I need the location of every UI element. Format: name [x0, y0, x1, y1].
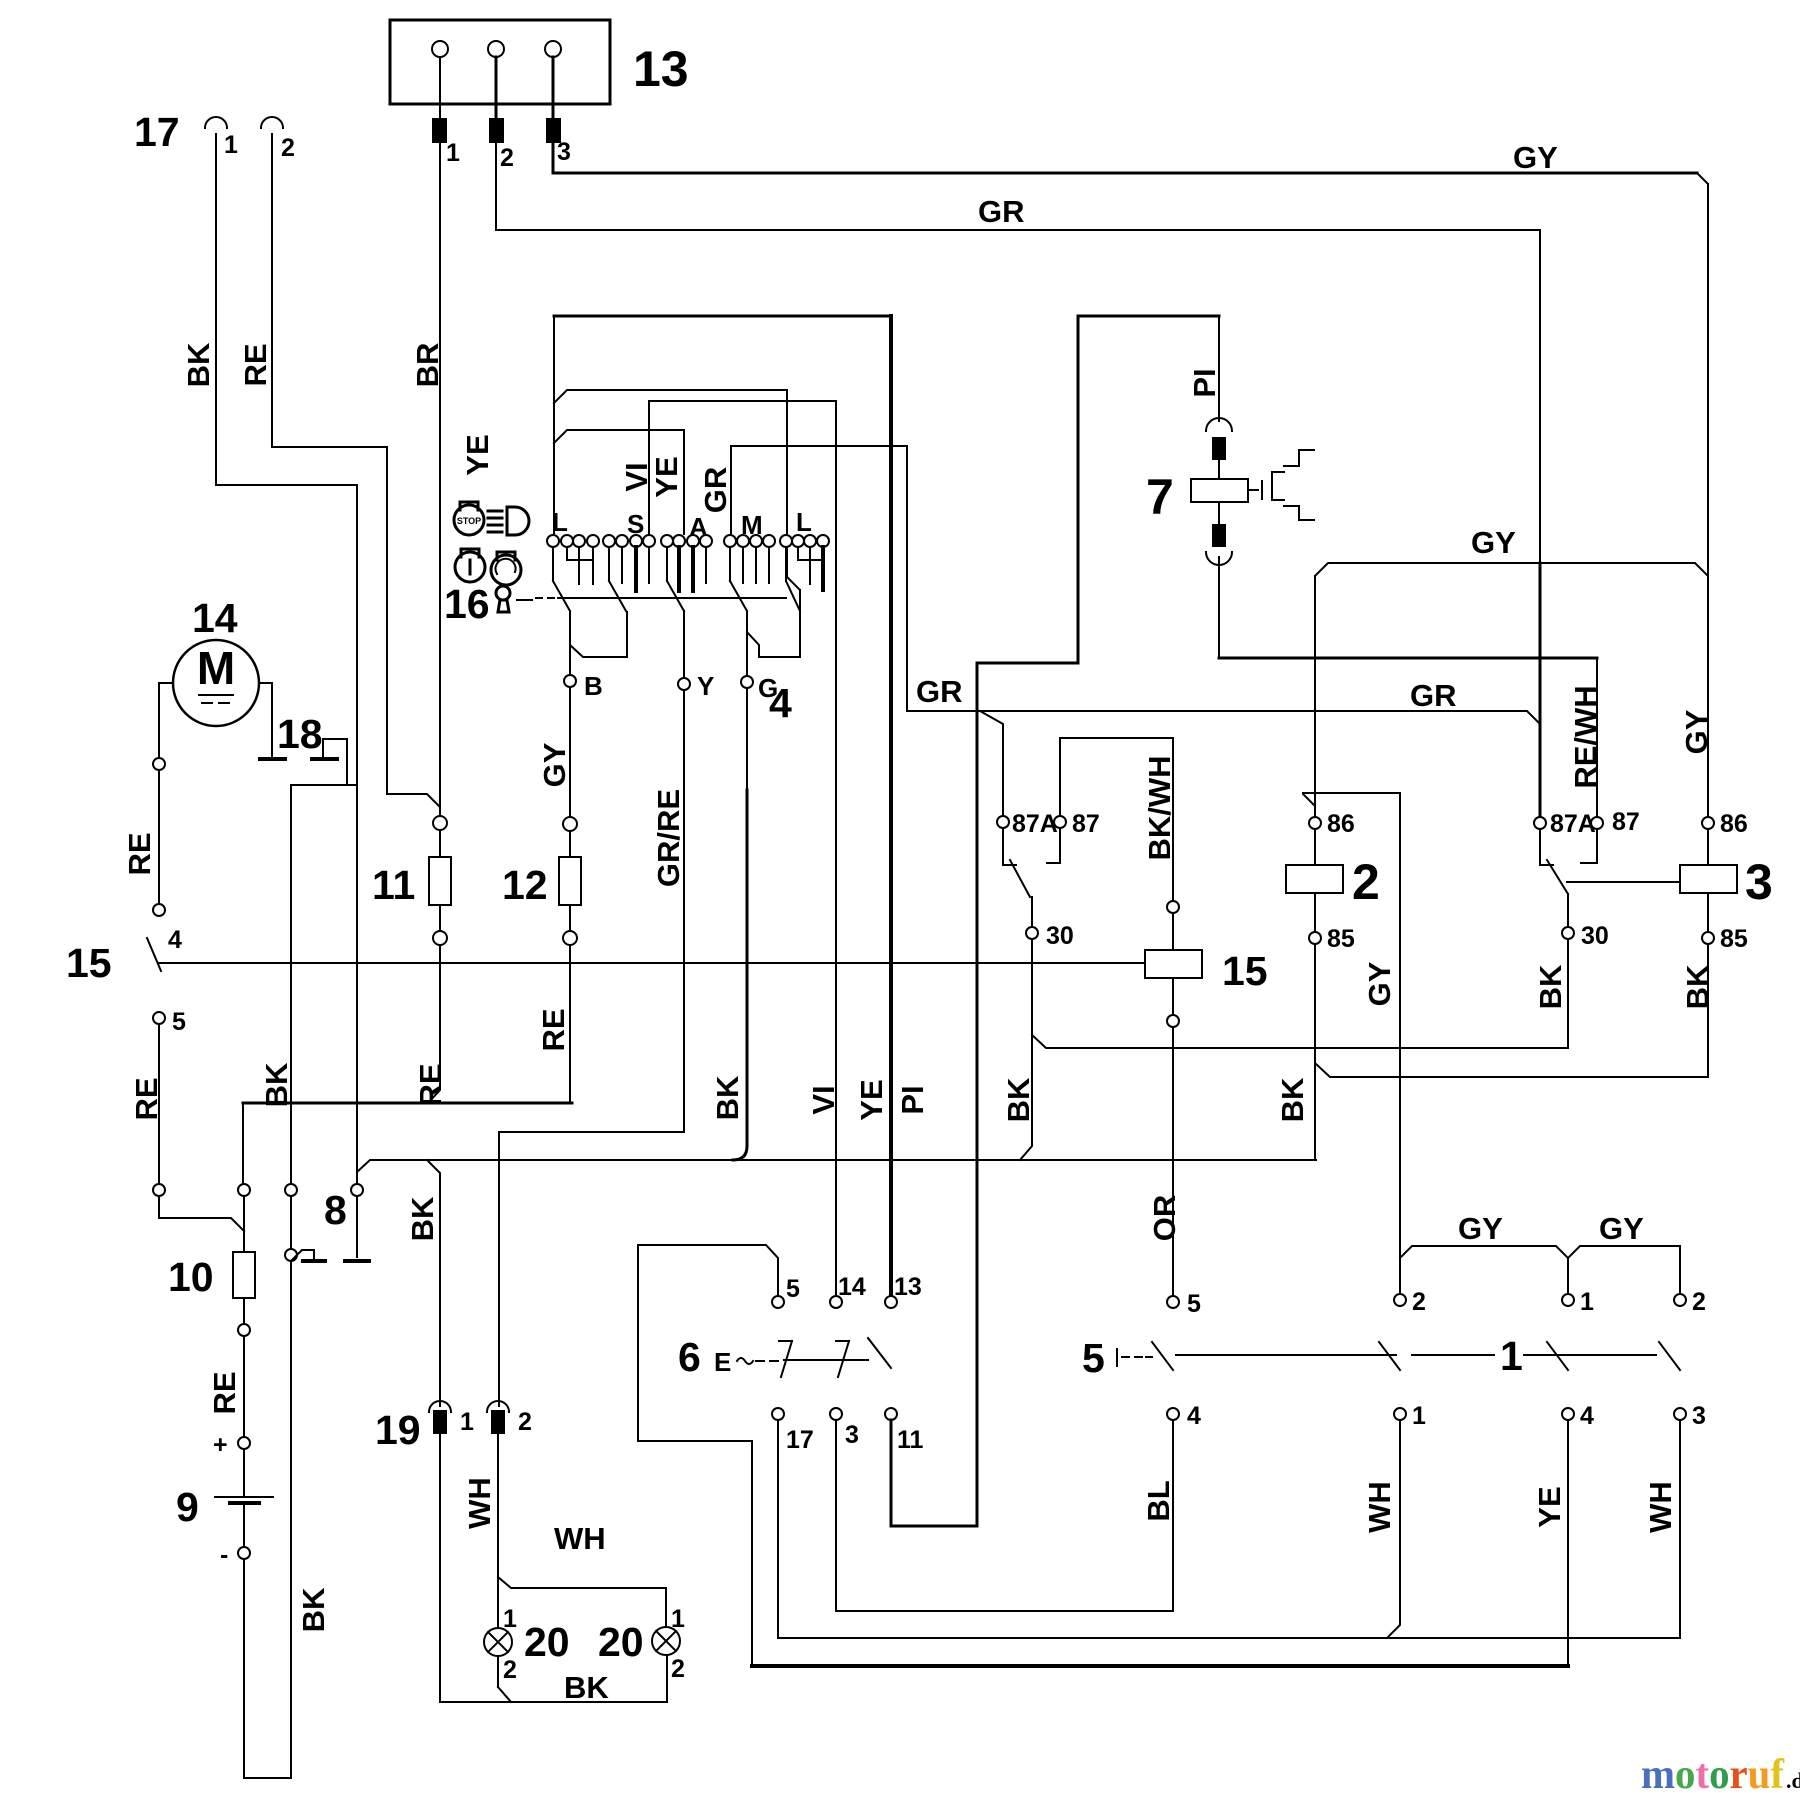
label GY switch1 b: [1599, 1211, 1644, 1246]
wire BK tap to connector 19-1: [427, 1160, 440, 1406]
svg-text:85: 85: [1327, 925, 1355, 953]
svg-text:-: -: [220, 1541, 228, 1569]
svg-text:WH: WH: [462, 1477, 497, 1529]
wire VI switch6-14: [835, 401, 837, 1296]
svg-text:13: 13: [633, 41, 689, 97]
diode 7 connector symbol: [1248, 450, 1314, 520]
label BR: [410, 343, 445, 388]
ignition switch blade 2: [609, 581, 626, 611]
svg-text:14: 14: [192, 595, 238, 641]
relay 2 coil: [1286, 829, 1380, 931]
svg-text:motoruf: motoruf: [1641, 1752, 1785, 1798]
relay 15 terminal 30: [1026, 922, 1074, 950]
wire motor left lead: [159, 683, 173, 757]
svg-text:RE: RE: [207, 1371, 242, 1414]
svg-text:PI: PI: [1187, 368, 1222, 397]
svg-text:3: 3: [557, 138, 571, 166]
svg-text:BK: BK: [1680, 964, 1715, 1009]
label RE lower left: [129, 1077, 164, 1120]
label GY relay3-86: [1679, 709, 1714, 754]
svg-text:RE/WH: RE/WH: [1568, 685, 1603, 788]
label OR: [1147, 1195, 1182, 1242]
svg-text:OR: OR: [1147, 1195, 1182, 1242]
wire GY relay2-86 to switch 1: [1303, 793, 1400, 1293]
label PI top: [1187, 368, 1222, 397]
wire BK bus y1160: [357, 1160, 1316, 1172]
label BK lamp wire: [564, 1670, 609, 1705]
label YE feeder: [649, 456, 684, 497]
label 18: [277, 711, 323, 757]
wire battery BK top link: [291, 785, 357, 1184]
svg-text:6: 6: [678, 1334, 701, 1380]
label RE wire 17-2: [238, 343, 273, 386]
svg-text:14: 14: [838, 1273, 866, 1301]
relay 3 terminal 85: [1702, 925, 1748, 953]
svg-text:GR: GR: [916, 674, 963, 709]
label 4 ignition node G: [769, 680, 792, 726]
label WH lamp jumper: [554, 1521, 606, 1556]
label WH pole A: [1362, 1481, 1397, 1533]
svg-text:13: 13: [894, 1273, 922, 1301]
svg-text:2: 2: [500, 144, 514, 172]
relay 2 terminal 85: [1309, 925, 1355, 1160]
switch 6 terminal 14: [830, 1273, 866, 1308]
svg-text:87A: 87A: [1012, 810, 1058, 838]
svg-text:YE: YE: [649, 456, 684, 497]
ignition switch terminal row group S: [603, 509, 655, 591]
svg-text:7: 7: [1146, 469, 1174, 525]
svg-text:Y: Y: [697, 671, 714, 701]
wire GY from 13-3 to relay 3 terminal 86: [553, 143, 1708, 816]
wire RE jog to fuse 10: [159, 1196, 244, 1231]
svg-text:YE: YE: [1532, 1486, 1567, 1527]
svg-text:RE: RE: [413, 1063, 448, 1106]
switch 5 terminal 4: [1167, 1402, 1201, 1430]
lamp 20 a: [484, 1605, 570, 1684]
label WH pole C: [1643, 1481, 1678, 1533]
junction circle battery BK: [285, 1249, 297, 1261]
label BK 19-1: [405, 1196, 440, 1241]
label WH 19-2: [462, 1477, 497, 1529]
switch 5 terminal 5: [1167, 1290, 1201, 1318]
svg-text:1: 1: [1412, 1402, 1426, 1430]
svg-text:3: 3: [1692, 1402, 1706, 1430]
svg-text:BL: BL: [1141, 1480, 1176, 1521]
svg-text:2: 2: [1412, 1288, 1426, 1316]
svg-text:GY: GY: [1471, 525, 1516, 560]
switch 6 blade 1: [779, 1341, 792, 1377]
ignition switch terminal row group M: [724, 510, 775, 583]
fuse 12: [502, 817, 581, 945]
wire GY jumper 1: [1400, 1246, 1568, 1294]
ignition switch terminal row group L2: [780, 507, 829, 590]
svg-text:3: 3: [845, 1421, 859, 1449]
label BL: [1141, 1480, 1176, 1521]
svg-text:RE: RE: [536, 1008, 571, 1051]
svg-text:20: 20: [598, 1619, 644, 1665]
relay 3 contact 87 hook: [1581, 829, 1597, 863]
icon lamp charge: [491, 552, 521, 585]
wire BK link relay15-30 to relay3-30: [1032, 939, 1568, 1048]
label BK relay15-30: [1001, 1077, 1036, 1122]
switch 6 terminal 17: [772, 1408, 814, 1454]
wire GY link y563: [1315, 563, 1707, 576]
wire WH lamp jumper: [498, 1577, 666, 1627]
svg-text:2: 2: [503, 1656, 517, 1684]
switch 15 left column terminal circles: [153, 758, 182, 954]
svg-text:4: 4: [1187, 1402, 1201, 1430]
svg-text:M: M: [197, 642, 235, 694]
svg-text:1: 1: [1580, 1288, 1594, 1316]
svg-text:87: 87: [1612, 808, 1640, 836]
switch 6 terminal 5: [772, 1275, 800, 1308]
label PI lower: [895, 1085, 930, 1114]
label GR mid: [916, 674, 963, 709]
label BK battery negative: [296, 1587, 331, 1632]
relay 3 blade: [1547, 860, 1680, 926]
ignition feeder wire VI to S group: [649, 401, 836, 534]
connector 13 pin 2: [489, 57, 514, 172]
switch 6 terminal 13: [885, 1273, 922, 1308]
label GR right: [1410, 678, 1457, 713]
svg-text:GR/RE: GR/RE: [651, 789, 686, 887]
switch 15 terminal 5: [153, 1008, 186, 1184]
svg-text:87A: 87A: [1550, 810, 1596, 838]
wire RE battery positive: [243, 1336, 245, 1437]
wire OR relay15 coil to switch 5: [1172, 1027, 1174, 1295]
switch 1 pole A: [1379, 1288, 1426, 1430]
svg-text:GY: GY: [1513, 140, 1558, 175]
svg-text:YE: YE: [854, 1079, 889, 1120]
svg-text:+: +: [213, 1431, 228, 1459]
ignition switch 16 outer loop wire YE: [554, 316, 891, 1296]
svg-text:E: E: [714, 1347, 731, 1377]
svg-text:11: 11: [372, 862, 415, 908]
svg-text:BK: BK: [259, 1062, 294, 1107]
wire motor right lead to ground 18: [259, 683, 272, 757]
ground 8 bar b: [345, 1259, 369, 1263]
svg-text:BK: BK: [296, 1587, 331, 1632]
switch 6 blade 3: [868, 1338, 891, 1368]
label BK relay2-85: [1275, 1077, 1310, 1122]
svg-text:2: 2: [671, 1655, 685, 1683]
ignition switch terminal row group L: [547, 507, 599, 584]
svg-text:17: 17: [134, 109, 180, 155]
svg-text:5: 5: [1187, 1290, 1201, 1318]
label GR top: [978, 194, 1025, 229]
wire WH pole A bottom: [1387, 1420, 1400, 1638]
wire GR to relays: [907, 711, 1540, 815]
label 8: [324, 1187, 347, 1233]
svg-text:20: 20: [524, 1619, 570, 1665]
fuse 10: [168, 1252, 255, 1336]
relay 15 switch 87: [1054, 738, 1173, 900]
svg-text:30: 30: [1581, 922, 1609, 950]
ground 18 bar b with riser: [312, 739, 347, 785]
svg-text:4: 4: [168, 926, 182, 954]
switch 15 wire to relay 15 coil: [159, 962, 1145, 964]
wire WH connector 19-2 from node Y: [499, 1132, 684, 1406]
connector 17: [134, 109, 295, 162]
label GR feeder: [698, 467, 733, 514]
wire BK from 17-1 down to ground 8: [216, 134, 357, 1257]
wire RE thick bus y1103: [243, 1103, 572, 1252]
svg-text:17: 17: [786, 1426, 814, 1454]
svg-text:18: 18: [277, 711, 323, 757]
label BK/WH: [1142, 755, 1177, 860]
svg-text:2: 2: [1692, 1288, 1706, 1316]
svg-text:L: L: [552, 507, 568, 537]
svg-text:1: 1: [1500, 1333, 1523, 1379]
motoruf logo: [1641, 1752, 1800, 1798]
wire thick bus YE bottom: [752, 1421, 1568, 1666]
svg-text:19: 19: [375, 1407, 421, 1453]
label GY link: [1471, 525, 1516, 560]
label BK relay3-30: [1533, 964, 1568, 1009]
label BK relay3-85: [1680, 964, 1715, 1009]
switch 5: [1082, 1335, 1173, 1381]
relay 3 terminal 30: [1562, 922, 1609, 950]
label GY top: [1513, 140, 1558, 175]
relay 15 contact 87A hook: [1003, 828, 1016, 865]
label GY fuse12 wire: [537, 742, 572, 787]
icon headlight: [488, 507, 529, 535]
wire WH switch6-17 to switch1 bottoms: [778, 1420, 1680, 1638]
svg-text:WH: WH: [1643, 1481, 1678, 1533]
ignition switch terminal row group A: [661, 512, 712, 591]
label VI feeder: [619, 462, 654, 491]
wire GR from 13-2 to relay 3 terminal 87A: [496, 143, 1540, 816]
wire BL switch6-3 to switch5-4: [836, 1420, 1173, 1611]
label GY relay2: [1362, 961, 1397, 1006]
label BK battery top: [259, 1062, 294, 1107]
junction circles row mid left: [153, 1184, 363, 1196]
svg-text:1: 1: [224, 131, 238, 159]
wire PI main loop: [977, 316, 1219, 663]
svg-text:RE: RE: [129, 1077, 164, 1120]
node G wire thick: [733, 611, 778, 1160]
ignition switch blade 3: [667, 581, 684, 611]
label YE pole B: [1532, 1486, 1567, 1527]
ignition switch blade 1: [553, 581, 570, 611]
ignition feeder wire to L2 group: [554, 390, 800, 657]
svg-text:1: 1: [460, 1408, 474, 1436]
wire RE from 17-2 to fuse 11 top: [272, 134, 440, 816]
ignition switch U conductor right: [747, 590, 800, 657]
svg-text:1: 1: [446, 139, 460, 167]
svg-text:GY: GY: [1362, 961, 1397, 1006]
svg-text:B: B: [584, 671, 603, 701]
connector 13 box: [390, 20, 689, 104]
svg-text:PI: PI: [895, 1085, 930, 1114]
svg-text:30: 30: [1046, 922, 1074, 950]
wire RE below fuse 11: [429, 945, 440, 1102]
relay 3 coil: [1680, 829, 1773, 931]
wire RE below fuse 12: [569, 945, 571, 1103]
svg-text:BR: BR: [410, 343, 445, 388]
relay 3 terminal 87A: [1534, 810, 1596, 838]
label GR/RE: [651, 789, 686, 887]
svg-text:11: 11: [897, 1426, 924, 1454]
wire GY jumper 2: [1568, 1246, 1680, 1294]
ignition switch mechanical link with key dashes: [517, 598, 786, 600]
svg-text:BK: BK: [181, 342, 216, 387]
icon STOP lamp: [454, 502, 484, 535]
svg-text:4: 4: [769, 680, 792, 726]
svg-text:15: 15: [66, 940, 112, 986]
svg-text:4: 4: [1580, 1402, 1594, 1430]
label YE lower: [854, 1079, 889, 1120]
svg-text:2: 2: [518, 1408, 532, 1436]
switch 6 blade 2: [836, 1341, 849, 1377]
fuse 11: [372, 816, 451, 945]
label RE battery: [207, 1371, 242, 1414]
ignition switch U conductor left: [570, 611, 627, 657]
connector 13 pin 3: [546, 57, 571, 166]
battery 9: [176, 1431, 273, 1569]
relay 15 switch 87A: [997, 810, 1058, 838]
svg-text:GY: GY: [537, 742, 572, 787]
switch 1 pole B: [1547, 1288, 1594, 1430]
svg-text:2: 2: [1352, 854, 1380, 910]
wire thick to relay3-87: [1219, 658, 1597, 816]
ignition feeder wire GR to M group: [731, 446, 907, 711]
ignition switch blade 5: [786, 581, 800, 611]
relay 15 blade: [1010, 860, 1032, 926]
label 1 switch: [1500, 1333, 1523, 1379]
switch 15 blade: [66, 938, 161, 986]
wire BK relay3-85: [1316, 944, 1708, 1077]
svg-text:GY: GY: [1679, 709, 1714, 754]
svg-text:86: 86: [1720, 810, 1748, 838]
connector 13 pin 1: [432, 57, 460, 167]
svg-text:5: 5: [1082, 1335, 1105, 1381]
label GY switch1 a: [1458, 1211, 1503, 1246]
svg-text:8: 8: [324, 1187, 347, 1233]
label RE fuse12: [536, 1008, 571, 1051]
relay 3 terminal 87: [1591, 808, 1640, 836]
label RE motor wire upper: [122, 832, 157, 875]
ground 18 bar a: [260, 757, 285, 761]
svg-text:GR: GR: [978, 194, 1025, 229]
key symbol 16: [444, 581, 510, 627]
node B wire to fuse 12: [564, 611, 603, 817]
svg-text:BK: BK: [564, 1670, 609, 1705]
svg-text:9: 9: [176, 1484, 199, 1530]
ignition feeder wire to A group: [554, 430, 684, 534]
svg-text:5: 5: [172, 1008, 186, 1036]
relay 15 coil: [1145, 901, 1268, 1027]
svg-text:STOP: STOP: [457, 516, 481, 526]
relay 15 contact 87 hook: [1047, 828, 1060, 863]
svg-text:85: 85: [1720, 925, 1748, 953]
relay 2 terminal 86: [1303, 576, 1355, 838]
diode 7 assembly: [1146, 318, 1248, 658]
svg-text:16: 16: [444, 581, 490, 627]
switch mech link line: [1176, 1354, 1656, 1356]
svg-text:BK: BK: [1001, 1077, 1036, 1122]
icon lamp I: [455, 549, 485, 582]
lamp 20 b: [598, 1605, 685, 1683]
label BK wire 17-1: [181, 342, 216, 387]
wire WH 19-2 down to lamp 20a: [497, 1434, 499, 1628]
label BK wire G: [710, 1075, 745, 1120]
label RE/WH: [1568, 685, 1603, 788]
svg-text:GR: GR: [698, 467, 733, 514]
svg-text:15: 15: [1222, 948, 1268, 994]
svg-text:2: 2: [281, 134, 295, 162]
svg-text:86: 86: [1327, 810, 1355, 838]
svg-text:3: 3: [1745, 854, 1773, 910]
svg-text:5: 5: [786, 1275, 800, 1303]
svg-text:YE: YE: [460, 434, 495, 475]
svg-text:BK: BK: [710, 1075, 745, 1120]
svg-text:BK: BK: [405, 1196, 440, 1241]
svg-text:WH: WH: [1362, 1481, 1397, 1533]
svg-text:GR: GR: [1410, 678, 1457, 713]
switch 6 terminal 11: [885, 1408, 924, 1454]
connector 13 pin circles: [432, 41, 561, 57]
svg-text:VI: VI: [806, 1085, 841, 1114]
switch 6 body: [678, 1334, 868, 1380]
wire BK battery negative loop: [244, 1196, 291, 1778]
switch 6 terminal 3: [830, 1408, 859, 1449]
relay 3 contact 87A hook: [1540, 829, 1553, 865]
svg-text:87: 87: [1072, 810, 1100, 838]
svg-text:GY: GY: [1458, 1211, 1503, 1246]
wire switch6-5 feeder loop: [638, 1245, 778, 1664]
wire BK lamp bottoms: [440, 1434, 667, 1702]
node Y wire GR/RE: [678, 611, 714, 1132]
svg-text:10: 10: [168, 1254, 214, 1300]
svg-text:BK: BK: [1533, 964, 1568, 1009]
wire BK relay15-30: [1020, 939, 1032, 1160]
wire BR from 13-1 to fuse 11: [439, 143, 441, 816]
svg-text:WH: WH: [554, 1521, 606, 1556]
label VI lower: [806, 1085, 841, 1114]
label YE left: [460, 434, 495, 475]
svg-text:12: 12: [502, 862, 548, 908]
wire PI switch6-11: [891, 663, 977, 1526]
label RE fuse11: [413, 1063, 448, 1106]
svg-text:RE: RE: [122, 832, 157, 875]
relay 3 terminal 86: [1702, 810, 1748, 838]
svg-text:.de: .de: [1786, 1768, 1800, 1793]
ignition switch blade 4: [730, 581, 747, 611]
svg-text:L: L: [796, 507, 812, 537]
svg-text:BK/WH: BK/WH: [1142, 755, 1177, 860]
motor 14: [173, 595, 259, 726]
connector 19: [375, 1401, 532, 1453]
ground 8 bar a with riser: [291, 1250, 325, 1261]
svg-text:RE: RE: [238, 343, 273, 386]
svg-text:GY: GY: [1599, 1211, 1644, 1246]
switch 1 pole C: [1659, 1288, 1706, 1430]
svg-text:BK: BK: [1275, 1077, 1310, 1122]
